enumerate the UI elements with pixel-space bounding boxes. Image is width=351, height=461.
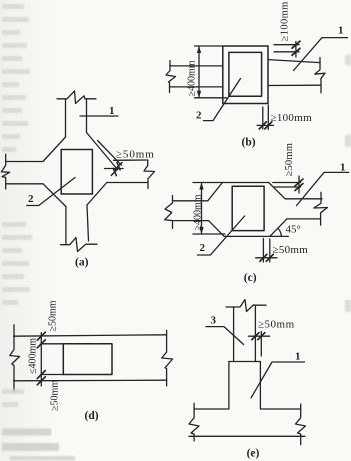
fig-d beam bottom edge (14, 379, 167, 382)
fig-e footing top edge left (194, 408, 229, 410)
fig-b dim 400 dimension line (198, 46, 200, 98)
svg-text:≥50mm: ≥50mm (50, 380, 61, 411)
svg-text:≥50mm: ≥50mm (258, 319, 295, 331)
fig-c right beam break line (314, 192, 328, 225)
fig-b dim 100 top connector (295, 42, 297, 58)
fig-e dim 50 extension line (260, 332, 262, 357)
svg-text:(d): (d) (85, 410, 99, 422)
fig-c dim 400 bottom extension line (193, 233, 225, 235)
svg-text:1: 1 (295, 351, 301, 363)
fig-c dim 50 top connector (298, 176, 300, 193)
fig-c block top edge (222, 182, 268, 184)
fig-d tick marks (37, 332, 45, 385)
svg-text:45°: 45° (286, 224, 301, 236)
fig-c left beam top edge (173, 200, 208, 202)
svg-text:(c): (c) (244, 272, 257, 284)
fig-a dimension extension line parallel to chamfer (98, 141, 122, 166)
fig-b dim 400 arrowheads (197, 46, 201, 98)
fig-b left beam break line (166, 61, 176, 93)
fig-a left beam top edge (6, 161, 43, 163)
svg-text:≤400mm: ≤400mm (28, 338, 39, 374)
fig-a bottom-right chamfer (87, 183, 107, 206)
fig-c dim 50 bottom tick marks (260, 254, 273, 261)
fig-a column top left edge (65, 99, 67, 137)
svg-text:≥50mm: ≥50mm (284, 143, 295, 177)
fig-c bottom-left chamfer (209, 221, 225, 237)
svg-text:(a): (a) (75, 257, 89, 269)
svg-text:1: 1 (109, 105, 115, 117)
fig-c bottom-right chamfer (270, 219, 287, 237)
fig-e column left edge (233, 307, 235, 362)
fig-a column bottom break line (61, 238, 97, 252)
fig-e dim 50 tick marks (252, 333, 265, 340)
svg-text:1: 1 (338, 25, 344, 37)
svg-text:2: 2 (196, 109, 202, 121)
fig-a tick mark X 2 (111, 168, 118, 175)
fig-c 45deg arc (278, 228, 281, 236)
fig-e footing top edge right (260, 408, 300, 410)
fig-a column bottom left edge (65, 207, 67, 245)
fig-a right beam bottom edge (107, 182, 147, 184)
fig-c dim 50 top tick marks (295, 179, 303, 191)
svg-text:≥50mm: ≥50mm (273, 244, 309, 256)
fig-a bottom-left chamfer (43, 184, 66, 207)
svg-text:≥50mm: ≥50mm (116, 148, 155, 160)
svg-text:≥50mm: ≥50mm (48, 300, 59, 331)
svg-text:≥100mm: ≥100mm (280, 1, 291, 41)
fig-c left beam break line (165, 196, 173, 229)
fig-e footing right break line (296, 404, 306, 445)
fig-a right beam top edge (114, 159, 148, 161)
fig-e column right edge (254, 305, 256, 361)
fig-b right beam bottom edge (268, 84, 320, 86)
fig-c right beam bottom edge (287, 218, 321, 220)
svg-text:3: 3 (211, 315, 217, 327)
fig-b enlarged block outline (223, 46, 268, 104)
fig-c block bottom edge with 45deg reference extension (224, 235, 288, 237)
fig-e pedestal left edge (228, 362, 230, 409)
svg-text:2: 2 (200, 242, 206, 254)
svg-text:1: 1 (340, 162, 346, 174)
fig-c dim 400 arrowheads (199, 183, 203, 235)
fig-c label 2 leader (198, 216, 245, 255)
fig-d opening rectangle (63, 344, 112, 375)
fig-a joint core rectangle (item 2) (61, 150, 92, 195)
fig-c dim 50 top extension lines (273, 182, 301, 184)
fig-a tick mark X 1 (115, 162, 122, 169)
fig-b dim 100 top tick marks (292, 41, 300, 55)
fig-c left beam bottom edge (173, 220, 209, 222)
svg-text:≥100mm: ≥100mm (271, 112, 313, 124)
fig-e pedestal right edge (259, 362, 261, 409)
fig-e footing left break line (189, 403, 199, 441)
fig-a right beam break line (144, 160, 155, 189)
fig-b dim 100 bottom: extension lines (262, 107, 264, 129)
fig-b dim 100 bottom connector (257, 124, 274, 126)
fig-c top-left chamfer (208, 183, 223, 201)
fig-a top-right chamfer (87, 133, 118, 170)
fig-b left beam top edge (170, 65, 223, 67)
fig-c dim 50 bottom extension lines (262, 239, 264, 263)
fig-b dim 400 bottom extension line (195, 97, 227, 99)
svg-text:(e): (e) (247, 448, 260, 460)
svg-text:≥400mm: ≥400mm (187, 60, 198, 96)
fig-b label 1 leader (294, 38, 348, 71)
fig-c label 1 leader (297, 172, 349, 205)
fig-c top-right chamfer (269, 183, 285, 199)
fig-a tick bar (105, 168, 124, 170)
fig-a column top right edge (86, 99, 88, 133)
fig-c dim 400 dimension line (201, 183, 203, 235)
fig-b label 2 leader (204, 79, 241, 121)
fig-e column top break line (226, 300, 266, 312)
fig-e dim 50 dimension line (249, 335, 270, 337)
fig-d right break line (162, 330, 173, 386)
fig-d left break line (10, 325, 20, 392)
fig-a label 2 leader (27, 178, 75, 206)
fig-c dim 50 bottom connector (256, 257, 277, 259)
fig-e footing bottom edge (189, 435, 305, 437)
fig-e pedestal top edge (229, 361, 261, 363)
fig-b left beam bottom edge (170, 86, 223, 88)
fig-a column bottom right edge (87, 205, 89, 241)
fig-b dim 100 top: extension lines (274, 44, 299, 46)
fig-a left beam bottom edge (6, 183, 43, 185)
svg-text:≥400mm: ≥400mm (193, 194, 204, 230)
fig-b right beam break line (315, 58, 325, 93)
fig-c inner opening rectangle (item 2) (232, 186, 264, 230)
svg-text:(b): (b) (242, 137, 256, 149)
fig-a left beam break line (1, 154, 9, 189)
fig-b dim 400 top extension line (195, 45, 223, 47)
fig-e label 1 leader (251, 362, 305, 398)
fig-d dimension line (40, 333, 42, 386)
fig-b dim 100 bottom tick marks (259, 122, 272, 129)
fig-d extension line top (41, 343, 63, 345)
fig-d extension line bottom (41, 374, 63, 376)
fig-c right beam top edge (285, 198, 322, 200)
fig-b right beam top edge (268, 60, 320, 63)
fig-d beam top edge (14, 335, 167, 336)
fig-a label 1 leader (80, 115, 118, 117)
fig-b inner opening rectangle (item 2) (229, 52, 262, 96)
svg-text:2: 2 (28, 193, 34, 205)
fig-c dim 400 top extension line (193, 182, 222, 184)
fig-a column top break line (57, 91, 96, 104)
fig-a top-left chamfer (43, 137, 66, 162)
fig-e label 3 leader (206, 327, 244, 345)
